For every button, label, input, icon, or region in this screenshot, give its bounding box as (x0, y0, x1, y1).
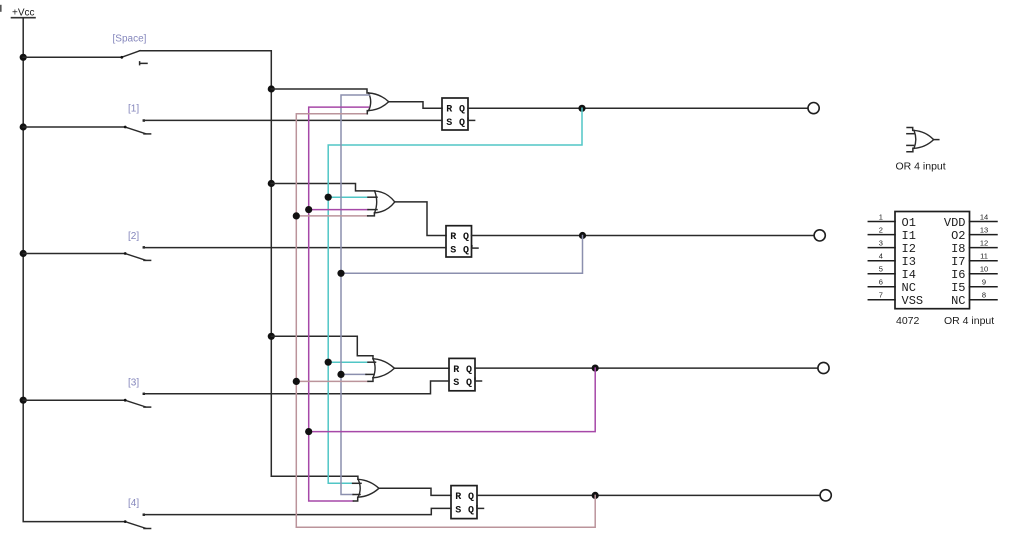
junction rail-key3 (20, 397, 27, 404)
wire FF3 Q output (475, 367, 817, 369)
junction slate-feed (337, 270, 344, 277)
net FF2-Q feedback (slate) (341, 95, 583, 495)
svg-text:3: 3 (879, 238, 883, 247)
svg-text:Q: Q (459, 105, 465, 116)
pin 13 (970, 225, 998, 234)
junction pink-G2 (293, 212, 300, 219)
junction bus-G1 (268, 85, 275, 92)
wire G4 to FF4 R (379, 488, 451, 495)
terminal OUT2 (814, 230, 825, 241)
svg-text:5: 5 (879, 265, 883, 274)
net FF3-Q feedback (magenta) (309, 107, 596, 501)
wire Vcc rail (23, 19, 125, 522)
or-gate G2 (375, 191, 395, 213)
junction FF1 Q (578, 105, 585, 112)
junction magenta-feed (305, 428, 312, 435)
svg-text:[4]: [4] (128, 498, 139, 509)
pin 6 (868, 278, 895, 287)
junction FF2 Q (579, 232, 586, 239)
wire FF4 Q output (477, 494, 820, 496)
switch SW1 [1] (23, 119, 150, 134)
svg-text:11: 11 (980, 252, 988, 261)
wire key3 to FF3 S (144, 381, 449, 394)
svg-text:+Vcc: +Vcc (12, 8, 35, 19)
svg-text:9: 9 (982, 278, 986, 287)
junction FF3 Q (592, 365, 599, 372)
svg-text:I6: I6 (951, 268, 965, 282)
latch FF2 (446, 226, 475, 257)
svg-text:12: 12 (980, 238, 988, 247)
svg-text:10: 10 (980, 265, 988, 274)
wire Space reset bus (140, 51, 272, 477)
latch FF4 (451, 486, 480, 519)
junction FF4 Q (592, 492, 599, 499)
junction rail-key1 (20, 123, 27, 130)
svg-text:NC: NC (951, 294, 965, 308)
pin 3 (868, 238, 895, 247)
svg-text:Q': Q' (459, 117, 471, 129)
svg-text:I4: I4 (902, 268, 916, 282)
wire FF2 Q' stub (472, 247, 479, 249)
svg-text:2: 2 (879, 225, 883, 234)
wire G3 to FF3 R (394, 367, 449, 369)
svg-text:8: 8 (982, 291, 986, 300)
terminal OUT4 (820, 490, 831, 501)
wire bus to G3 input1 (271, 336, 373, 358)
terminal OUT1 (808, 103, 819, 114)
pin 1 (868, 212, 895, 221)
junction rail-Space (20, 54, 27, 61)
svg-text:Q': Q' (463, 244, 475, 256)
svg-text:I2: I2 (902, 242, 916, 256)
or-gate G1 (369, 93, 389, 111)
svg-text:R: R (450, 232, 456, 243)
svg-text:I5: I5 (951, 281, 965, 295)
junction slate-G3 (337, 371, 344, 378)
wire bus to G1 input1 (271, 89, 368, 93)
svg-text:1: 1 (879, 212, 883, 221)
switch SW4 [4] (124, 514, 151, 529)
pin 14 (970, 212, 998, 221)
wire FF1 Q' stub (468, 119, 475, 121)
switch SW0 [Space] (23, 51, 147, 65)
junction bus-G3 (268, 333, 275, 340)
wire G2 to FF2 R (395, 202, 446, 236)
pin 9 (970, 278, 998, 287)
svg-text:[Space]: [Space] (113, 34, 147, 45)
net FF1-Q feedback (cyan) (328, 108, 582, 483)
svg-text:R: R (453, 365, 459, 376)
svg-text:Q: Q (466, 365, 472, 376)
pin 5 (868, 265, 895, 274)
wire key4 to FF4 S (144, 508, 451, 514)
svg-text:13: 13 (980, 225, 988, 234)
svg-text:7: 7 (879, 291, 883, 300)
junction magenta-G2 (305, 206, 312, 213)
pin 11 (970, 252, 998, 261)
svg-text:R: R (455, 492, 461, 503)
wire G1 to FF1 R (389, 102, 442, 109)
svg-text:14: 14 (980, 212, 988, 221)
svg-text:NC: NC (902, 281, 916, 295)
svg-text:Q': Q' (466, 377, 478, 389)
svg-text:S: S (453, 378, 459, 389)
terminal OUT3 (818, 362, 829, 373)
pin 10 (970, 265, 998, 274)
pin 2 (868, 225, 895, 234)
pin 7 (868, 291, 895, 300)
junction pink-G3 (293, 378, 300, 385)
wire FF2 Q output (472, 235, 814, 237)
pin 12 (970, 238, 998, 247)
svg-text:[1]: [1] (128, 103, 139, 114)
junction cyan-G3 (325, 359, 332, 366)
svg-text:S: S (455, 505, 461, 516)
svg-text:6: 6 (879, 278, 883, 287)
svg-text:I8: I8 (951, 242, 965, 256)
net FF4-Q feedback (pink) (296, 111, 595, 528)
svg-text:S: S (450, 245, 456, 256)
latch FF3 (449, 358, 478, 390)
svg-text:Q: Q (463, 232, 469, 243)
wire FF1 Q output (468, 107, 807, 109)
switch SW2 [2] (23, 246, 150, 260)
svg-text:R: R (446, 105, 452, 116)
svg-text:VDD: VDD (944, 216, 966, 230)
svg-text:O1: O1 (902, 216, 916, 230)
wire FF3 Q' stub (475, 380, 482, 382)
junction cyan-G2 (325, 194, 332, 201)
svg-text:VSS: VSS (902, 294, 924, 308)
power +Vcc (12, 8, 36, 19)
svg-text:4072: 4072 (896, 315, 920, 327)
svg-text:Q: Q (468, 492, 474, 503)
wire key2 to FF2 S (144, 247, 446, 249)
pin 8 (970, 291, 998, 300)
svg-text:[3]: [3] (128, 378, 139, 389)
screen edge artifact (0, 5, 2, 12)
svg-text:I3: I3 (902, 255, 916, 269)
svg-text:4: 4 (879, 252, 883, 261)
or-gate legend symbol (907, 128, 939, 152)
svg-text:OR 4 input: OR 4 input (896, 160, 946, 172)
svg-text:I7: I7 (951, 255, 965, 269)
junction rail-key2 (20, 250, 27, 257)
svg-text:OR 4 input: OR 4 input (944, 315, 994, 327)
or-gate G4 (358, 479, 379, 497)
svg-text:S: S (446, 118, 452, 129)
junction bus-G2 (268, 180, 275, 187)
latch FF1 (442, 98, 471, 130)
wire bus to G2 input1 (271, 184, 374, 191)
svg-text:O2: O2 (951, 229, 965, 243)
wire key1 to FF1 S (144, 119, 442, 121)
svg-text:Q': Q' (468, 504, 480, 516)
svg-text:I1: I1 (902, 229, 916, 243)
or-gate G3 (373, 359, 394, 378)
svg-text:[2]: [2] (128, 231, 139, 242)
pin 4 (868, 252, 895, 261)
wire FF4 Q' stub (477, 507, 484, 509)
switch SW3 [3] (23, 393, 150, 408)
wire bus to G4 input1 (271, 476, 358, 479)
IC U1 4072 body (895, 212, 970, 309)
